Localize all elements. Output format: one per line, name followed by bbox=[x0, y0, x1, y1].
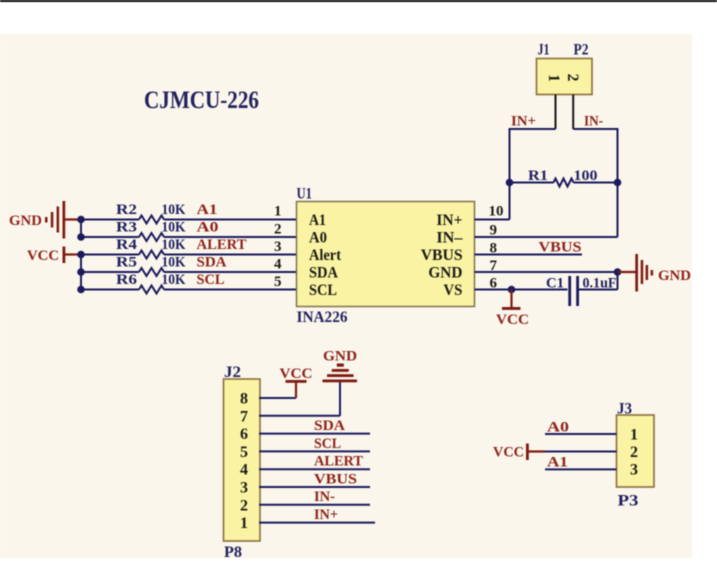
connector J3 / P3 bbox=[617, 401, 655, 510]
svg-text:IN+: IN+ bbox=[511, 114, 536, 130]
svg-text:ALERT: ALERT bbox=[197, 237, 247, 253]
svg-text:6: 6 bbox=[490, 276, 498, 292]
wire row1 A1 bbox=[81, 219, 297, 221]
wire row2 A0 bbox=[81, 236, 297, 238]
svg-text:R4: R4 bbox=[116, 237, 138, 253]
wire C1 to GND node bbox=[617, 272, 619, 290]
svg-text:J1: J1 bbox=[538, 42, 550, 59]
wire J2-6 SDA bbox=[259, 433, 370, 435]
svg-text:2: 2 bbox=[274, 222, 282, 238]
svg-text:GND: GND bbox=[323, 349, 357, 365]
svg-text:SDA: SDA bbox=[197, 255, 227, 271]
node R1 right junction bbox=[614, 179, 622, 187]
svg-text:1: 1 bbox=[274, 204, 282, 220]
svg-text:R3: R3 bbox=[116, 220, 137, 236]
svg-text:100: 100 bbox=[574, 168, 598, 184]
svg-text:10K: 10K bbox=[162, 237, 186, 253]
svg-text:ALERT: ALERT bbox=[314, 454, 363, 470]
wire row5 SCL bbox=[81, 289, 297, 291]
svg-text:U1: U1 bbox=[297, 186, 313, 203]
wire pin9 IN- bbox=[475, 223, 618, 239]
op-amp U1 body bbox=[297, 186, 475, 327]
svg-text:9: 9 bbox=[490, 223, 498, 239]
svg-text:A1: A1 bbox=[547, 455, 568, 471]
svg-text:2: 2 bbox=[240, 497, 248, 514]
svg-text:4: 4 bbox=[274, 257, 282, 273]
resistor R2 10K bbox=[116, 202, 186, 224]
svg-text:VCC: VCC bbox=[493, 445, 524, 461]
svg-text:5: 5 bbox=[240, 444, 248, 461]
resistor R5 10K bbox=[116, 255, 186, 277]
svg-text:VCC: VCC bbox=[496, 312, 529, 328]
wire J2-7 to GND bbox=[259, 382, 340, 416]
power VCC (J3) bbox=[493, 444, 545, 461]
svg-text:2: 2 bbox=[630, 444, 638, 461]
node GND-bus junction (rows 1-2) bbox=[77, 216, 85, 241]
svg-text:C1: C1 bbox=[546, 276, 564, 292]
svg-text:3: 3 bbox=[630, 462, 638, 479]
svg-text:6: 6 bbox=[240, 426, 248, 443]
svg-text:IN-: IN- bbox=[314, 489, 335, 505]
connector J2 / P8 bbox=[224, 364, 261, 561]
svg-text:A0: A0 bbox=[309, 230, 327, 247]
svg-text:SCL: SCL bbox=[309, 282, 337, 299]
pin stub J1-1 bbox=[555, 95, 557, 130]
svg-text:VCC: VCC bbox=[280, 366, 313, 382]
wire J2-1 IN+ bbox=[259, 522, 375, 524]
svg-text:2: 2 bbox=[564, 74, 581, 82]
svg-text:IN–: IN– bbox=[436, 230, 463, 247]
svg-text:1: 1 bbox=[240, 515, 248, 532]
wire pin6 VS bbox=[475, 276, 618, 292]
svg-text:P8: P8 bbox=[224, 544, 242, 561]
wire IN- (J1-2 to right rail) bbox=[573, 128, 617, 237]
svg-text:0.1uF: 0.1uF bbox=[583, 276, 617, 292]
wire J3-2 VCC bbox=[545, 451, 617, 453]
wire IN+ (J1-1 to left rail) bbox=[510, 128, 556, 220]
node pin7/C1/GND junction bbox=[614, 268, 622, 276]
power VCC (left symbol) bbox=[27, 247, 81, 265]
svg-text:SDA: SDA bbox=[314, 418, 345, 434]
svg-text:7: 7 bbox=[490, 258, 498, 274]
svg-text:R2: R2 bbox=[116, 202, 137, 218]
svg-text:VCC: VCC bbox=[27, 248, 59, 264]
svg-text:SDA: SDA bbox=[309, 265, 338, 282]
wire pin7 GND bbox=[475, 258, 618, 274]
wire row3 ALERT bbox=[81, 254, 297, 256]
svg-text:P3: P3 bbox=[618, 493, 639, 510]
svg-text:10K: 10K bbox=[162, 202, 186, 218]
resistor R6 10K bbox=[116, 272, 186, 294]
svg-text:R1: R1 bbox=[528, 168, 548, 184]
svg-text:IN+: IN+ bbox=[314, 507, 338, 523]
svg-text:R6: R6 bbox=[116, 272, 138, 288]
svg-text:Alert: Alert bbox=[309, 247, 342, 264]
svg-text:GND: GND bbox=[428, 265, 462, 282]
pin stub J1-2 bbox=[572, 95, 574, 130]
svg-text:R5: R5 bbox=[116, 255, 137, 271]
svg-text:3: 3 bbox=[240, 480, 248, 497]
ground (J2 earth symbol) bbox=[323, 349, 358, 383]
wire J3-1 A0 bbox=[545, 433, 617, 435]
svg-text:IN-: IN- bbox=[584, 114, 603, 130]
ground (left GND symbol) bbox=[9, 201, 81, 239]
node VCC-bus junction (rows 3-5) bbox=[77, 251, 85, 294]
ground (right GND symbol) bbox=[618, 254, 692, 292]
svg-text:10K: 10K bbox=[162, 272, 186, 288]
node R1 left junction bbox=[506, 179, 514, 187]
svg-text:8: 8 bbox=[240, 391, 248, 408]
svg-text:8: 8 bbox=[490, 241, 498, 257]
resistor R1 100 (shunt) bbox=[510, 168, 618, 187]
svg-text:4: 4 bbox=[240, 462, 248, 479]
capacitor C1 0.1uF bbox=[546, 276, 617, 307]
svg-text:1: 1 bbox=[545, 74, 562, 82]
svg-text:VBUS: VBUS bbox=[421, 247, 463, 264]
top black border line bbox=[0, 0, 717, 2]
svg-text:A0: A0 bbox=[547, 420, 569, 436]
svg-text:10: 10 bbox=[489, 204, 504, 220]
svg-text:IN+: IN+ bbox=[436, 212, 462, 229]
svg-text:10K: 10K bbox=[162, 220, 186, 236]
svg-text:10K: 10K bbox=[162, 255, 186, 271]
wire J2-4 ALERT bbox=[259, 468, 370, 470]
wire J2-5 SCL bbox=[259, 450, 370, 452]
svg-text:A0: A0 bbox=[197, 220, 219, 236]
svg-text:A1: A1 bbox=[197, 202, 218, 218]
power VCC (below pin 6) bbox=[496, 290, 529, 329]
resistor R3 10K bbox=[116, 220, 186, 242]
wire pin8 VBUS bbox=[475, 241, 583, 257]
wire pin10 IN+ bbox=[475, 204, 510, 220]
svg-text:SCL: SCL bbox=[314, 436, 341, 452]
power VCC (J2) bbox=[280, 366, 313, 398]
svg-text:VBUS: VBUS bbox=[314, 471, 357, 487]
svg-text:VS: VS bbox=[443, 282, 462, 299]
svg-text:GND: GND bbox=[9, 213, 42, 229]
wire row4 SDA bbox=[81, 271, 297, 273]
svg-text:GND: GND bbox=[658, 268, 691, 284]
svg-text:7: 7 bbox=[240, 408, 248, 425]
wire J2-2 IN- bbox=[259, 504, 370, 506]
wire J2-3 VBUS bbox=[259, 486, 370, 488]
node VS/VCC junction bbox=[508, 286, 516, 294]
svg-text:CJMCU-226: CJMCU-226 bbox=[144, 87, 259, 114]
svg-text:INA226: INA226 bbox=[297, 309, 348, 326]
svg-text:1: 1 bbox=[630, 427, 638, 444]
svg-text:3: 3 bbox=[274, 239, 282, 255]
svg-text:5: 5 bbox=[274, 274, 282, 290]
svg-text:VBUS: VBUS bbox=[539, 240, 582, 256]
svg-text:SCL: SCL bbox=[197, 272, 225, 288]
svg-text:P2: P2 bbox=[574, 42, 589, 59]
connector J1 / P2 bbox=[537, 42, 593, 95]
wire J3-3 A1 bbox=[545, 468, 617, 470]
resistor R4 10K bbox=[116, 237, 186, 259]
wire J2-8 to VCC bbox=[259, 397, 296, 399]
svg-text:A1: A1 bbox=[309, 212, 326, 229]
